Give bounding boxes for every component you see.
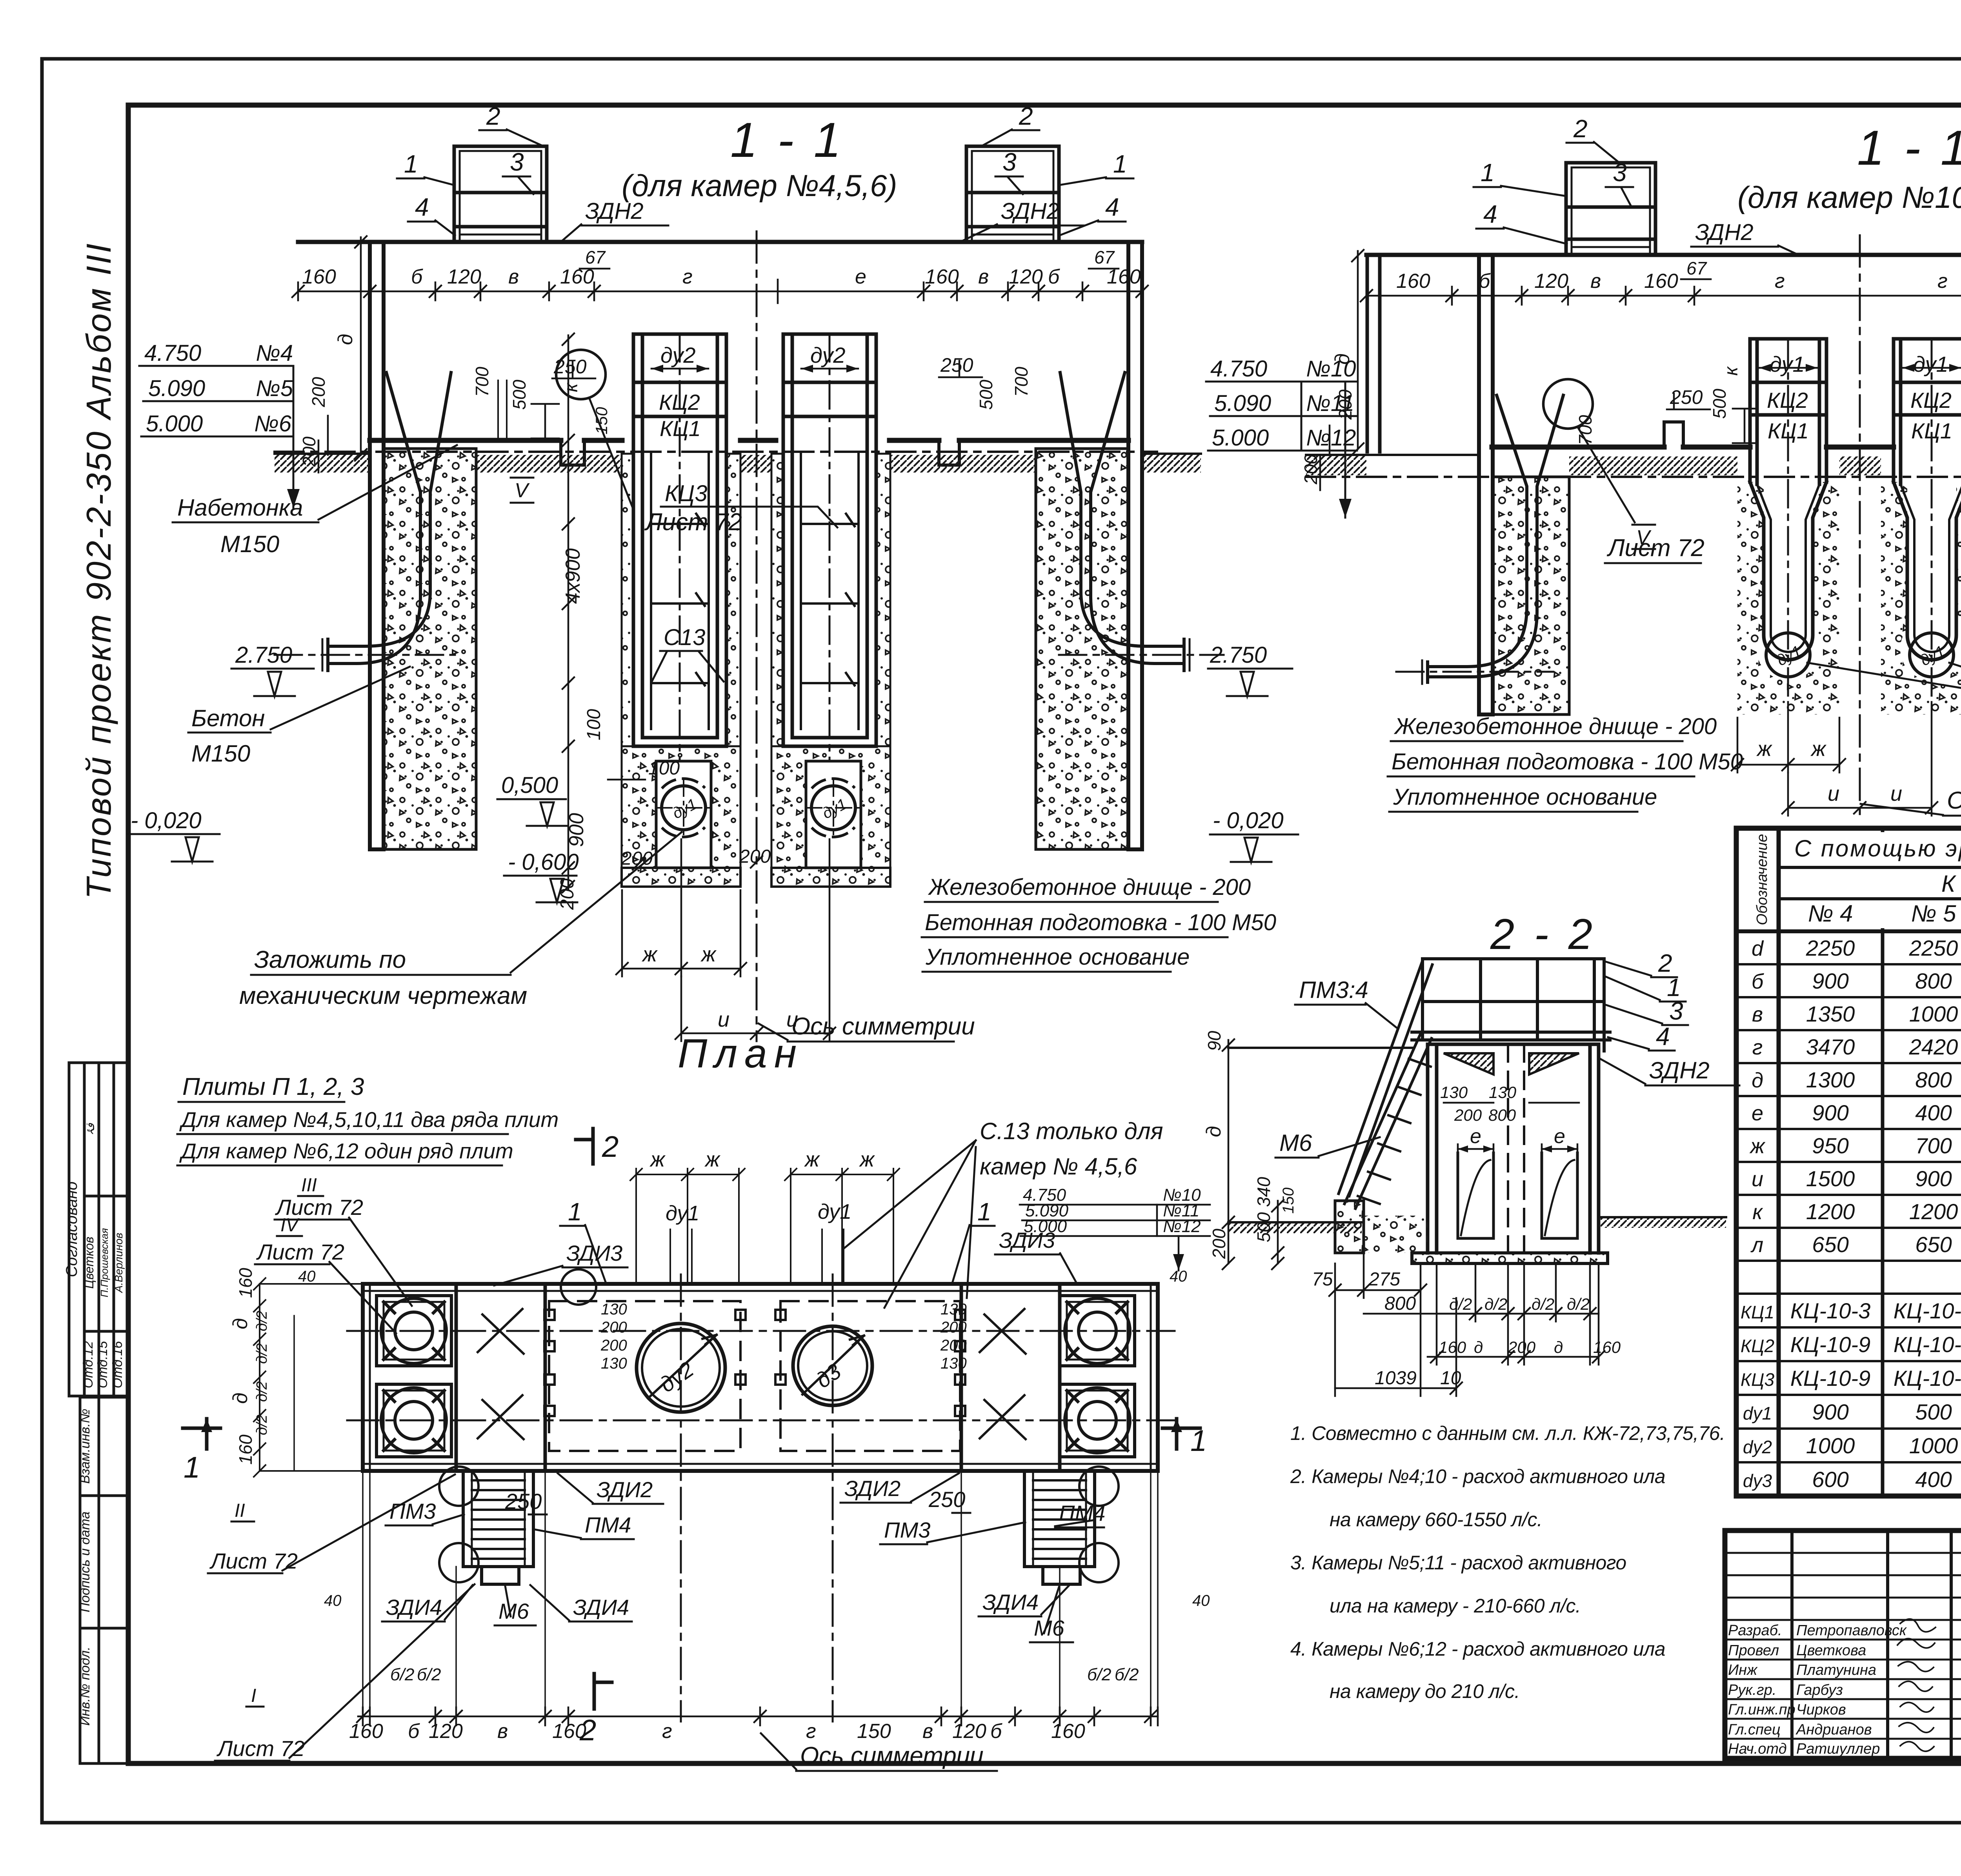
svg-text:2 - 2: 2 - 2 bbox=[1490, 910, 1596, 958]
svg-text:д: д bbox=[1202, 1126, 1225, 1137]
svg-text:130: 130 bbox=[940, 1301, 967, 1318]
svg-text:200: 200 bbox=[600, 1337, 627, 1354]
svg-text:б: б bbox=[1048, 265, 1060, 288]
svg-text:1: 1 bbox=[1190, 1424, 1207, 1458]
svg-text:500: 500 bbox=[1709, 389, 1730, 419]
svg-text:200: 200 bbox=[1301, 454, 1321, 485]
svg-text:700: 700 bbox=[472, 367, 492, 397]
svg-text:Типовой проект 902-2-350 Ал: Типовой проект 902-2-350 Альбом III bbox=[79, 242, 118, 899]
svg-text:Андрианов: Андрианов bbox=[1795, 1721, 1872, 1738]
svg-text:5.090: 5.090 bbox=[1214, 391, 1271, 416]
svg-text:120: 120 bbox=[429, 1720, 463, 1743]
svg-text:ЗДН2: ЗДН2 bbox=[1001, 198, 1059, 224]
svg-text:1300: 1300 bbox=[1806, 1067, 1855, 1092]
svg-text:в: в bbox=[978, 265, 989, 288]
svg-text:ж: ж bbox=[1810, 737, 1827, 761]
svg-text:ЗДН2: ЗДН2 bbox=[585, 198, 644, 224]
svg-text:Плиты П 1, 2, 3: Плиты П 1, 2, 3 bbox=[182, 1073, 364, 1100]
svg-text:500: 500 bbox=[976, 380, 996, 410]
svg-text:2.750: 2.750 bbox=[1210, 642, 1267, 668]
svg-text:160: 160 bbox=[235, 1268, 256, 1298]
svg-text:160: 160 bbox=[349, 1720, 383, 1743]
svg-text:Провел: Провел bbox=[1728, 1642, 1779, 1659]
svg-text:Ратшуллер: Ратшуллер bbox=[1796, 1741, 1880, 1757]
svg-text:Разраб.: Разраб. bbox=[1728, 1622, 1782, 1639]
svg-text:ЗДИ4: ЗДИ4 bbox=[982, 1590, 1039, 1614]
svg-text:ж: ж bbox=[642, 943, 658, 966]
svg-text:Отд.12: Отд.12 bbox=[81, 1341, 96, 1389]
svg-text:1000: 1000 bbox=[1909, 1002, 1958, 1026]
svg-text:40: 40 bbox=[324, 1592, 342, 1609]
svg-text:г: г bbox=[1752, 1036, 1763, 1059]
svg-text:ПМ3:4: ПМ3:4 bbox=[1299, 977, 1368, 1003]
svg-text:1: 1 bbox=[184, 1451, 200, 1484]
svg-text:Ось симметрии: Ось симметрии bbox=[791, 1013, 975, 1040]
svg-text:4: 4 bbox=[1656, 1022, 1670, 1051]
svg-text:д: д bbox=[229, 1318, 252, 1329]
svg-text:200: 200 bbox=[1508, 1338, 1536, 1356]
svg-text:д: д bbox=[334, 334, 357, 345]
svg-text:е: е bbox=[1554, 1125, 1565, 1148]
svg-text:ду2: ду2 bbox=[660, 343, 695, 367]
svg-text:КЦ-10-3: КЦ-10-3 bbox=[1790, 1298, 1870, 1323]
svg-text:М6: М6 bbox=[498, 1599, 529, 1623]
svg-text:к: к bbox=[1721, 366, 1742, 376]
svg-text:4: 4 bbox=[1105, 193, 1119, 221]
svg-text:4х900: 4х900 bbox=[562, 548, 584, 604]
svg-text:1: 1 bbox=[404, 150, 418, 178]
svg-text:Инв.№ подл.: Инв.№ подл. bbox=[78, 1647, 93, 1726]
svg-text:500: 500 bbox=[1915, 1400, 1952, 1424]
svg-text:700: 700 bbox=[1011, 367, 1031, 397]
svg-text:0,500: 0,500 bbox=[501, 773, 558, 798]
svg-text:Чирков: Чирков bbox=[1796, 1701, 1846, 1718]
svg-text:д: д bbox=[229, 1392, 252, 1404]
svg-text:б: б bbox=[1479, 270, 1491, 293]
svg-text:ПМ4: ПМ4 bbox=[585, 1512, 631, 1537]
svg-text:160: 160 bbox=[925, 265, 959, 288]
svg-text:КЦ1: КЦ1 bbox=[1768, 418, 1809, 443]
svg-text:650: 650 bbox=[1915, 1232, 1952, 1257]
svg-text:КЦ2: КЦ2 bbox=[659, 390, 700, 414]
svg-text:120: 120 bbox=[1534, 270, 1568, 293]
svg-text:2: 2 bbox=[1019, 102, 1033, 130]
svg-text:120: 120 bbox=[952, 1720, 986, 1743]
svg-text:е: е bbox=[1470, 1125, 1481, 1148]
svg-text:1 - 1: 1 - 1 bbox=[1857, 121, 1961, 175]
svg-text:КЦ2: КЦ2 bbox=[1910, 388, 1952, 413]
svg-text:ж: ж bbox=[1749, 1134, 1766, 1158]
svg-text:Отд.16: Отд.16 bbox=[110, 1341, 125, 1389]
svg-text:900: 900 bbox=[1812, 1400, 1848, 1424]
svg-text:№ 5: № 5 bbox=[1911, 900, 1956, 927]
svg-text:200: 200 bbox=[308, 377, 329, 407]
svg-text:Обозначение: Обозначение bbox=[1754, 834, 1770, 925]
svg-text:д/2: д/2 bbox=[254, 1414, 270, 1435]
svg-text:4: 4 bbox=[1483, 200, 1497, 228]
svg-text:№11: №11 bbox=[1306, 391, 1354, 416]
svg-text:КЦ1: КЦ1 bbox=[1911, 418, 1952, 443]
svg-text:в: в bbox=[508, 265, 519, 288]
svg-text:С помощью эрлифтов: С помощью эрлифтов bbox=[1794, 835, 1961, 862]
svg-text:75: 75 bbox=[1312, 1269, 1333, 1290]
svg-text:Гарбуз: Гарбуз bbox=[1796, 1682, 1843, 1698]
svg-text:С.13 только для: С.13 только для bbox=[980, 1118, 1163, 1144]
svg-text:3470: 3470 bbox=[1806, 1034, 1855, 1059]
svg-text:ЗДИ3: ЗДИ3 bbox=[566, 1241, 622, 1265]
svg-text:400: 400 bbox=[1915, 1467, 1952, 1492]
svg-text:130: 130 bbox=[1440, 1083, 1468, 1102]
svg-text:КЦ-10-3: КЦ-10-3 bbox=[1894, 1298, 1961, 1323]
svg-text:100: 100 bbox=[584, 709, 604, 740]
svg-text:г: г bbox=[806, 1720, 816, 1743]
svg-text:160: 160 bbox=[1593, 1338, 1621, 1356]
svg-text:130: 130 bbox=[1489, 1083, 1517, 1102]
svg-text:в: в bbox=[1752, 1003, 1763, 1026]
svg-text:д3: д3 bbox=[811, 1359, 846, 1393]
svg-text:№12: №12 bbox=[1306, 425, 1356, 451]
svg-text:Заложить по: Заложить по bbox=[254, 946, 406, 973]
svg-text:160: 160 bbox=[1051, 1720, 1085, 1743]
svg-text:1: 1 bbox=[568, 1198, 582, 1226]
svg-text:г: г bbox=[682, 265, 693, 288]
svg-text:ду1: ду1 bbox=[666, 1202, 699, 1225]
svg-text:ЗДИ4: ЗДИ4 bbox=[573, 1595, 629, 1620]
svg-text:1000: 1000 bbox=[1806, 1433, 1855, 1458]
svg-text:к: к bbox=[1752, 1200, 1763, 1224]
svg-text:2420: 2420 bbox=[1909, 1034, 1958, 1059]
svg-text:150: 150 bbox=[1280, 1187, 1297, 1214]
svg-text:в: в bbox=[1590, 270, 1601, 293]
svg-text:3. Камеры №5;11 - расход: 3. Камеры №5;11 - расход активного bbox=[1290, 1552, 1626, 1574]
svg-text:67: 67 bbox=[1094, 247, 1115, 267]
svg-text:130: 130 bbox=[601, 1355, 627, 1372]
svg-text:г: г bbox=[1775, 270, 1785, 293]
svg-text:800: 800 bbox=[1915, 1067, 1952, 1092]
svg-text:V: V bbox=[515, 479, 530, 502]
svg-text:1: 1 bbox=[1481, 158, 1495, 187]
svg-text:90: 90 bbox=[1204, 1031, 1224, 1051]
svg-text:5.090: 5.090 bbox=[148, 376, 205, 401]
svg-text:130: 130 bbox=[940, 1355, 967, 1372]
svg-text:40: 40 bbox=[1192, 1592, 1210, 1609]
svg-text:Железобетонное днище - 200: Железобетонное днище - 200 bbox=[1393, 714, 1717, 739]
svg-text:2: 2 bbox=[602, 1130, 618, 1163]
svg-text:dy1: dy1 bbox=[1743, 1403, 1772, 1423]
svg-text:150: 150 bbox=[857, 1720, 891, 1743]
svg-text:в: в bbox=[922, 1720, 933, 1743]
svg-text:д/2: д/2 bbox=[1484, 1295, 1507, 1313]
svg-text:2: 2 bbox=[486, 102, 500, 130]
svg-text:д/2: д/2 bbox=[1567, 1295, 1590, 1313]
svg-text:е: е bbox=[1752, 1102, 1763, 1125]
svg-text:4. Камеры №6;12 - расход ак: 4. Камеры №6;12 - расход активного ила bbox=[1290, 1638, 1665, 1660]
svg-text:Гл.спец: Гл.спец bbox=[1728, 1721, 1781, 1738]
svg-text:и: и bbox=[1890, 782, 1902, 805]
svg-text:ж: ж bbox=[1756, 737, 1773, 761]
svg-text:ж: ж bbox=[649, 1148, 666, 1171]
svg-text:40: 40 bbox=[1170, 1268, 1187, 1285]
svg-text:800: 800 bbox=[1915, 969, 1952, 993]
svg-text:А.Верлинов: А.Верлинов bbox=[113, 1233, 125, 1294]
svg-text:№5: №5 bbox=[256, 376, 293, 401]
svg-text:д: д bbox=[1752, 1069, 1763, 1092]
svg-text:б/2: б/2 bbox=[1087, 1665, 1111, 1684]
svg-text:б: б bbox=[990, 1720, 1002, 1743]
svg-text:Подпись и дата: Подпись и дата bbox=[78, 1511, 93, 1612]
svg-text:160: 160 bbox=[1644, 270, 1678, 293]
svg-text:800: 800 bbox=[1488, 1106, 1516, 1124]
svg-text:Рук.гр.: Рук.гр. bbox=[1728, 1682, 1776, 1698]
svg-text:ЗДИ4: ЗДИ4 bbox=[386, 1595, 442, 1620]
svg-text:950: 950 bbox=[1812, 1133, 1848, 1158]
svg-text:Согласовано: Согласовано bbox=[63, 1182, 80, 1277]
svg-text:160: 160 bbox=[552, 1720, 586, 1743]
svg-text:200: 200 bbox=[940, 1319, 967, 1336]
svg-text:160: 160 bbox=[1396, 270, 1430, 293]
svg-text:Бетонная подготовка - 100 М50: Бетонная подготовка - 100 М50 bbox=[925, 910, 1276, 935]
svg-text:Железобетонное днище - 200: Железобетонное днище - 200 bbox=[928, 874, 1251, 900]
svg-text:Ось симметрии: Ось симметрии bbox=[1947, 787, 1961, 814]
svg-text:III: III bbox=[301, 1175, 317, 1196]
svg-text:в: в bbox=[497, 1720, 508, 1743]
svg-text:Петропавловск: Петропавловск bbox=[1796, 1622, 1907, 1639]
svg-text:4.750: 4.750 bbox=[144, 340, 201, 366]
svg-text:ду1: ду1 bbox=[1913, 352, 1948, 376]
svg-text:2250: 2250 bbox=[1909, 936, 1958, 960]
svg-text:250: 250 bbox=[940, 354, 973, 376]
svg-text:200: 200 bbox=[1454, 1106, 1482, 1124]
svg-text:200: 200 bbox=[940, 1337, 967, 1354]
svg-text:г: г bbox=[662, 1720, 672, 1743]
svg-text:dy2: dy2 bbox=[1743, 1437, 1772, 1457]
svg-text:б/2: б/2 bbox=[417, 1665, 441, 1684]
svg-text:д/2: д/2 bbox=[1532, 1295, 1554, 1313]
svg-text:М150: М150 bbox=[191, 740, 250, 767]
svg-text:200: 200 bbox=[299, 436, 319, 467]
svg-text:130: 130 bbox=[601, 1301, 627, 1318]
svg-text:1. Совместно с данным см.: 1. Совместно с данным см. л.л. КЖ-72,73,… bbox=[1290, 1422, 1725, 1444]
svg-text:(для камер №10,11,12): (для камер №10,11,12) bbox=[1737, 180, 1961, 215]
svg-text:КЦ2: КЦ2 bbox=[1741, 1336, 1774, 1356]
svg-text:г: г bbox=[1937, 270, 1948, 293]
svg-text:1200: 1200 bbox=[1806, 1199, 1855, 1224]
svg-text:5.000: 5.000 bbox=[1212, 425, 1269, 451]
svg-text:на камеру 660-1550 л/с.: на камеру 660-1550 л/с. bbox=[1330, 1509, 1542, 1531]
svg-text:5.000: 5.000 bbox=[146, 411, 203, 436]
svg-text:П.Прошевская: П.Прошевская bbox=[98, 1228, 110, 1298]
svg-text:1200: 1200 bbox=[1909, 1199, 1958, 1224]
svg-text:Гл.инж.пр: Гл.инж.пр bbox=[1728, 1701, 1795, 1718]
svg-text:IV: IV bbox=[280, 1215, 300, 1236]
svg-text:С13: С13 bbox=[664, 625, 705, 650]
svg-text:650: 650 bbox=[1812, 1232, 1848, 1257]
svg-text:д: д bbox=[1554, 1338, 1563, 1356]
svg-text:К а м е р ы: К а м е р ы bbox=[1941, 871, 1961, 897]
svg-text:е: е bbox=[855, 265, 866, 288]
svg-text:Бетон: Бетон bbox=[191, 705, 265, 731]
svg-text:КЦ3: КЦ3 bbox=[1741, 1369, 1775, 1390]
svg-text:3: 3 bbox=[1002, 148, 1017, 176]
svg-text:10: 10 bbox=[1440, 1368, 1461, 1389]
svg-text:3: 3 bbox=[510, 148, 524, 176]
svg-text:б: б bbox=[411, 265, 423, 288]
svg-text:4: 4 bbox=[415, 193, 429, 221]
svg-text:500: 500 bbox=[1253, 1212, 1274, 1242]
svg-text:ду2: ду2 bbox=[655, 1357, 698, 1397]
svg-text:250: 250 bbox=[505, 1489, 542, 1514]
svg-text:600: 600 bbox=[1812, 1467, 1848, 1492]
svg-text:900: 900 bbox=[1812, 1100, 1848, 1125]
svg-text:800: 800 bbox=[1384, 1293, 1416, 1314]
svg-text:- 0,600: - 0,600 bbox=[508, 849, 579, 875]
svg-text:Платунина: Платунина bbox=[1796, 1662, 1876, 1678]
svg-text:КЦ3: КЦ3 bbox=[665, 481, 708, 506]
svg-text:ду1: ду1 bbox=[1770, 352, 1805, 376]
svg-text:камер № 4,5,6: камер № 4,5,6 bbox=[980, 1153, 1137, 1180]
svg-text:б/2: б/2 bbox=[1115, 1665, 1139, 1684]
svg-text:Взам.инв.№: Взам.инв.№ bbox=[78, 1409, 93, 1483]
svg-text:ж: ж bbox=[700, 943, 717, 966]
svg-text:КЦ-10-9: КЦ-10-9 bbox=[1894, 1332, 1961, 1357]
svg-text:Ось симметрии: Ось симметрии bbox=[800, 1742, 984, 1769]
svg-text:250: 250 bbox=[928, 1487, 965, 1512]
svg-text:40: 40 bbox=[298, 1268, 316, 1285]
svg-text:Уплотненное основание: Уплотненное основание bbox=[925, 944, 1190, 970]
svg-text:ЗДН2: ЗДН2 bbox=[1649, 1057, 1710, 1083]
svg-text:ж: ж bbox=[804, 1148, 820, 1171]
svg-text:Цветков: Цветков bbox=[82, 1237, 96, 1289]
svg-text:1500: 1500 bbox=[1806, 1166, 1855, 1191]
svg-text:КЦ1: КЦ1 bbox=[1741, 1302, 1774, 1322]
svg-text:Бетонная подготовка - 100 М50: Бетонная подготовка - 100 М50 bbox=[1392, 749, 1743, 774]
svg-text:и: и bbox=[1752, 1167, 1763, 1191]
svg-text:d: d bbox=[1752, 937, 1764, 960]
svg-text:ж: ж bbox=[704, 1148, 721, 1171]
svg-text:ЗДИ2: ЗДИ2 bbox=[597, 1477, 653, 1502]
svg-text:и: и bbox=[718, 1008, 729, 1031]
svg-text:ПМ3: ПМ3 bbox=[389, 1499, 436, 1523]
svg-text:1000: 1000 bbox=[1909, 1433, 1958, 1458]
svg-text:I: I bbox=[251, 1685, 256, 1706]
svg-text:120: 120 bbox=[1009, 265, 1043, 288]
svg-text:4.750: 4.750 bbox=[1210, 356, 1267, 382]
svg-text:ж: ж bbox=[859, 1148, 875, 1171]
svg-text:М6: М6 bbox=[1279, 1130, 1312, 1156]
svg-text:ЗДИ2: ЗДИ2 bbox=[844, 1476, 900, 1501]
svg-text:механическим чертежам: механическим чертежам bbox=[239, 982, 527, 1009]
svg-text:д/2: д/2 bbox=[1449, 1295, 1472, 1313]
svg-text:КЦ-10-9: КЦ-10-9 bbox=[1790, 1332, 1870, 1357]
svg-text:2250: 2250 bbox=[1806, 936, 1855, 960]
svg-text:и: и bbox=[1828, 782, 1839, 805]
svg-text:900: 900 bbox=[1915, 1166, 1952, 1191]
svg-text:ПМ3: ПМ3 bbox=[884, 1518, 930, 1542]
svg-text:160: 160 bbox=[1439, 1338, 1466, 1356]
svg-text:№10: №10 bbox=[1306, 356, 1356, 382]
svg-text:700: 700 bbox=[1915, 1133, 1952, 1158]
svg-text:- 0,020: - 0,020 bbox=[1213, 808, 1284, 833]
svg-text:1: 1 bbox=[1113, 150, 1127, 178]
svg-text:Нач.отд: Нач.отд bbox=[1728, 1741, 1787, 1757]
svg-text:2: 2 bbox=[1573, 115, 1588, 143]
svg-text:ила на камеру - 210-660 л/с.: ила на камеру - 210-660 л/с. bbox=[1330, 1595, 1581, 1617]
svg-text:1 - 1: 1 - 1 bbox=[730, 113, 844, 167]
svg-text:Для камер №4,5,10,11 два ряда: Для камер №4,5,10,11 два ряда плит bbox=[179, 1107, 558, 1132]
svg-text:67: 67 bbox=[1686, 258, 1707, 278]
svg-text:900: 900 bbox=[1812, 969, 1848, 993]
svg-text:400: 400 bbox=[1915, 1100, 1952, 1125]
svg-text:100: 100 bbox=[648, 758, 680, 779]
svg-text:№4: №4 bbox=[256, 340, 293, 366]
svg-text:б/2: б/2 bbox=[390, 1665, 414, 1684]
svg-text:Лист 72: Лист 72 bbox=[644, 509, 742, 536]
svg-text:67: 67 bbox=[585, 247, 606, 267]
svg-text:ду2: ду2 bbox=[810, 343, 845, 367]
svg-text:на камеру до 210 л/с.: на камеру до 210 л/с. bbox=[1330, 1680, 1520, 1702]
svg-text:М150: М150 bbox=[220, 531, 279, 557]
svg-text:б: б bbox=[1752, 970, 1764, 993]
svg-text:КЦ-10-9: КЦ-10-9 bbox=[1790, 1366, 1870, 1391]
svg-text:Инж: Инж bbox=[1728, 1662, 1758, 1678]
svg-text:1039: 1039 bbox=[1375, 1368, 1417, 1389]
svg-text:dy3: dy3 bbox=[1743, 1471, 1772, 1491]
svg-text:340: 340 bbox=[1253, 1177, 1274, 1207]
svg-text:д/2: д/2 bbox=[254, 1311, 270, 1331]
svg-text:1350: 1350 bbox=[1806, 1002, 1855, 1026]
svg-text:д: д bbox=[1474, 1338, 1483, 1356]
svg-text:II: II bbox=[235, 1500, 245, 1521]
svg-text:л: л bbox=[1750, 1233, 1763, 1257]
svg-text:ЗДН2: ЗДН2 bbox=[1695, 220, 1754, 245]
svg-text:1: 1 bbox=[977, 1198, 991, 1226]
svg-text:200: 200 bbox=[600, 1319, 627, 1336]
svg-text:Уплотненное основание: Уплотненное основание bbox=[1393, 784, 1657, 810]
svg-text:КЦ1: КЦ1 bbox=[660, 416, 701, 441]
svg-text:Набетонка: Набетонка bbox=[177, 494, 303, 521]
svg-text:275: 275 bbox=[1368, 1269, 1400, 1290]
svg-text:500: 500 bbox=[509, 380, 529, 410]
svg-text:д/2: д/2 bbox=[254, 1381, 270, 1402]
svg-text:б: б bbox=[408, 1720, 420, 1743]
svg-text:Цветкова: Цветкова bbox=[1796, 1642, 1866, 1659]
svg-text:№ 4: № 4 bbox=[1808, 900, 1853, 927]
svg-text:Отд.15: Отд.15 bbox=[95, 1341, 110, 1389]
svg-text:160: 160 bbox=[302, 265, 336, 288]
svg-text:2.750: 2.750 bbox=[235, 642, 292, 668]
svg-text:КЦ2: КЦ2 bbox=[1767, 388, 1808, 413]
svg-text:Для камер №6,12 один ряд плит: Для камер №6,12 один ряд плит bbox=[179, 1139, 513, 1163]
svg-text:- 0,020: - 0,020 bbox=[131, 808, 202, 833]
svg-text:Лист 72: Лист 72 bbox=[256, 1240, 344, 1264]
svg-text:2. Камеры №4;10 - расход ак: 2. Камеры №4;10 - расход активного ила bbox=[1290, 1465, 1665, 1487]
svg-text:(для камер №4,5,6): (для камер №4,5,6) bbox=[622, 168, 897, 203]
svg-text:КЦ-10-9: КЦ-10-9 bbox=[1894, 1366, 1961, 1391]
svg-text:160: 160 bbox=[235, 1434, 256, 1465]
svg-text:д/2: д/2 bbox=[254, 1343, 270, 1364]
svg-text:120: 120 bbox=[447, 265, 481, 288]
svg-text:№6: №6 bbox=[254, 411, 292, 436]
svg-text:200: 200 bbox=[1209, 1229, 1229, 1259]
svg-text:ду1: ду1 bbox=[818, 1200, 851, 1223]
svg-text:к: к bbox=[561, 382, 582, 392]
svg-text:ڧۂ: ڧۂ bbox=[84, 1123, 97, 1136]
